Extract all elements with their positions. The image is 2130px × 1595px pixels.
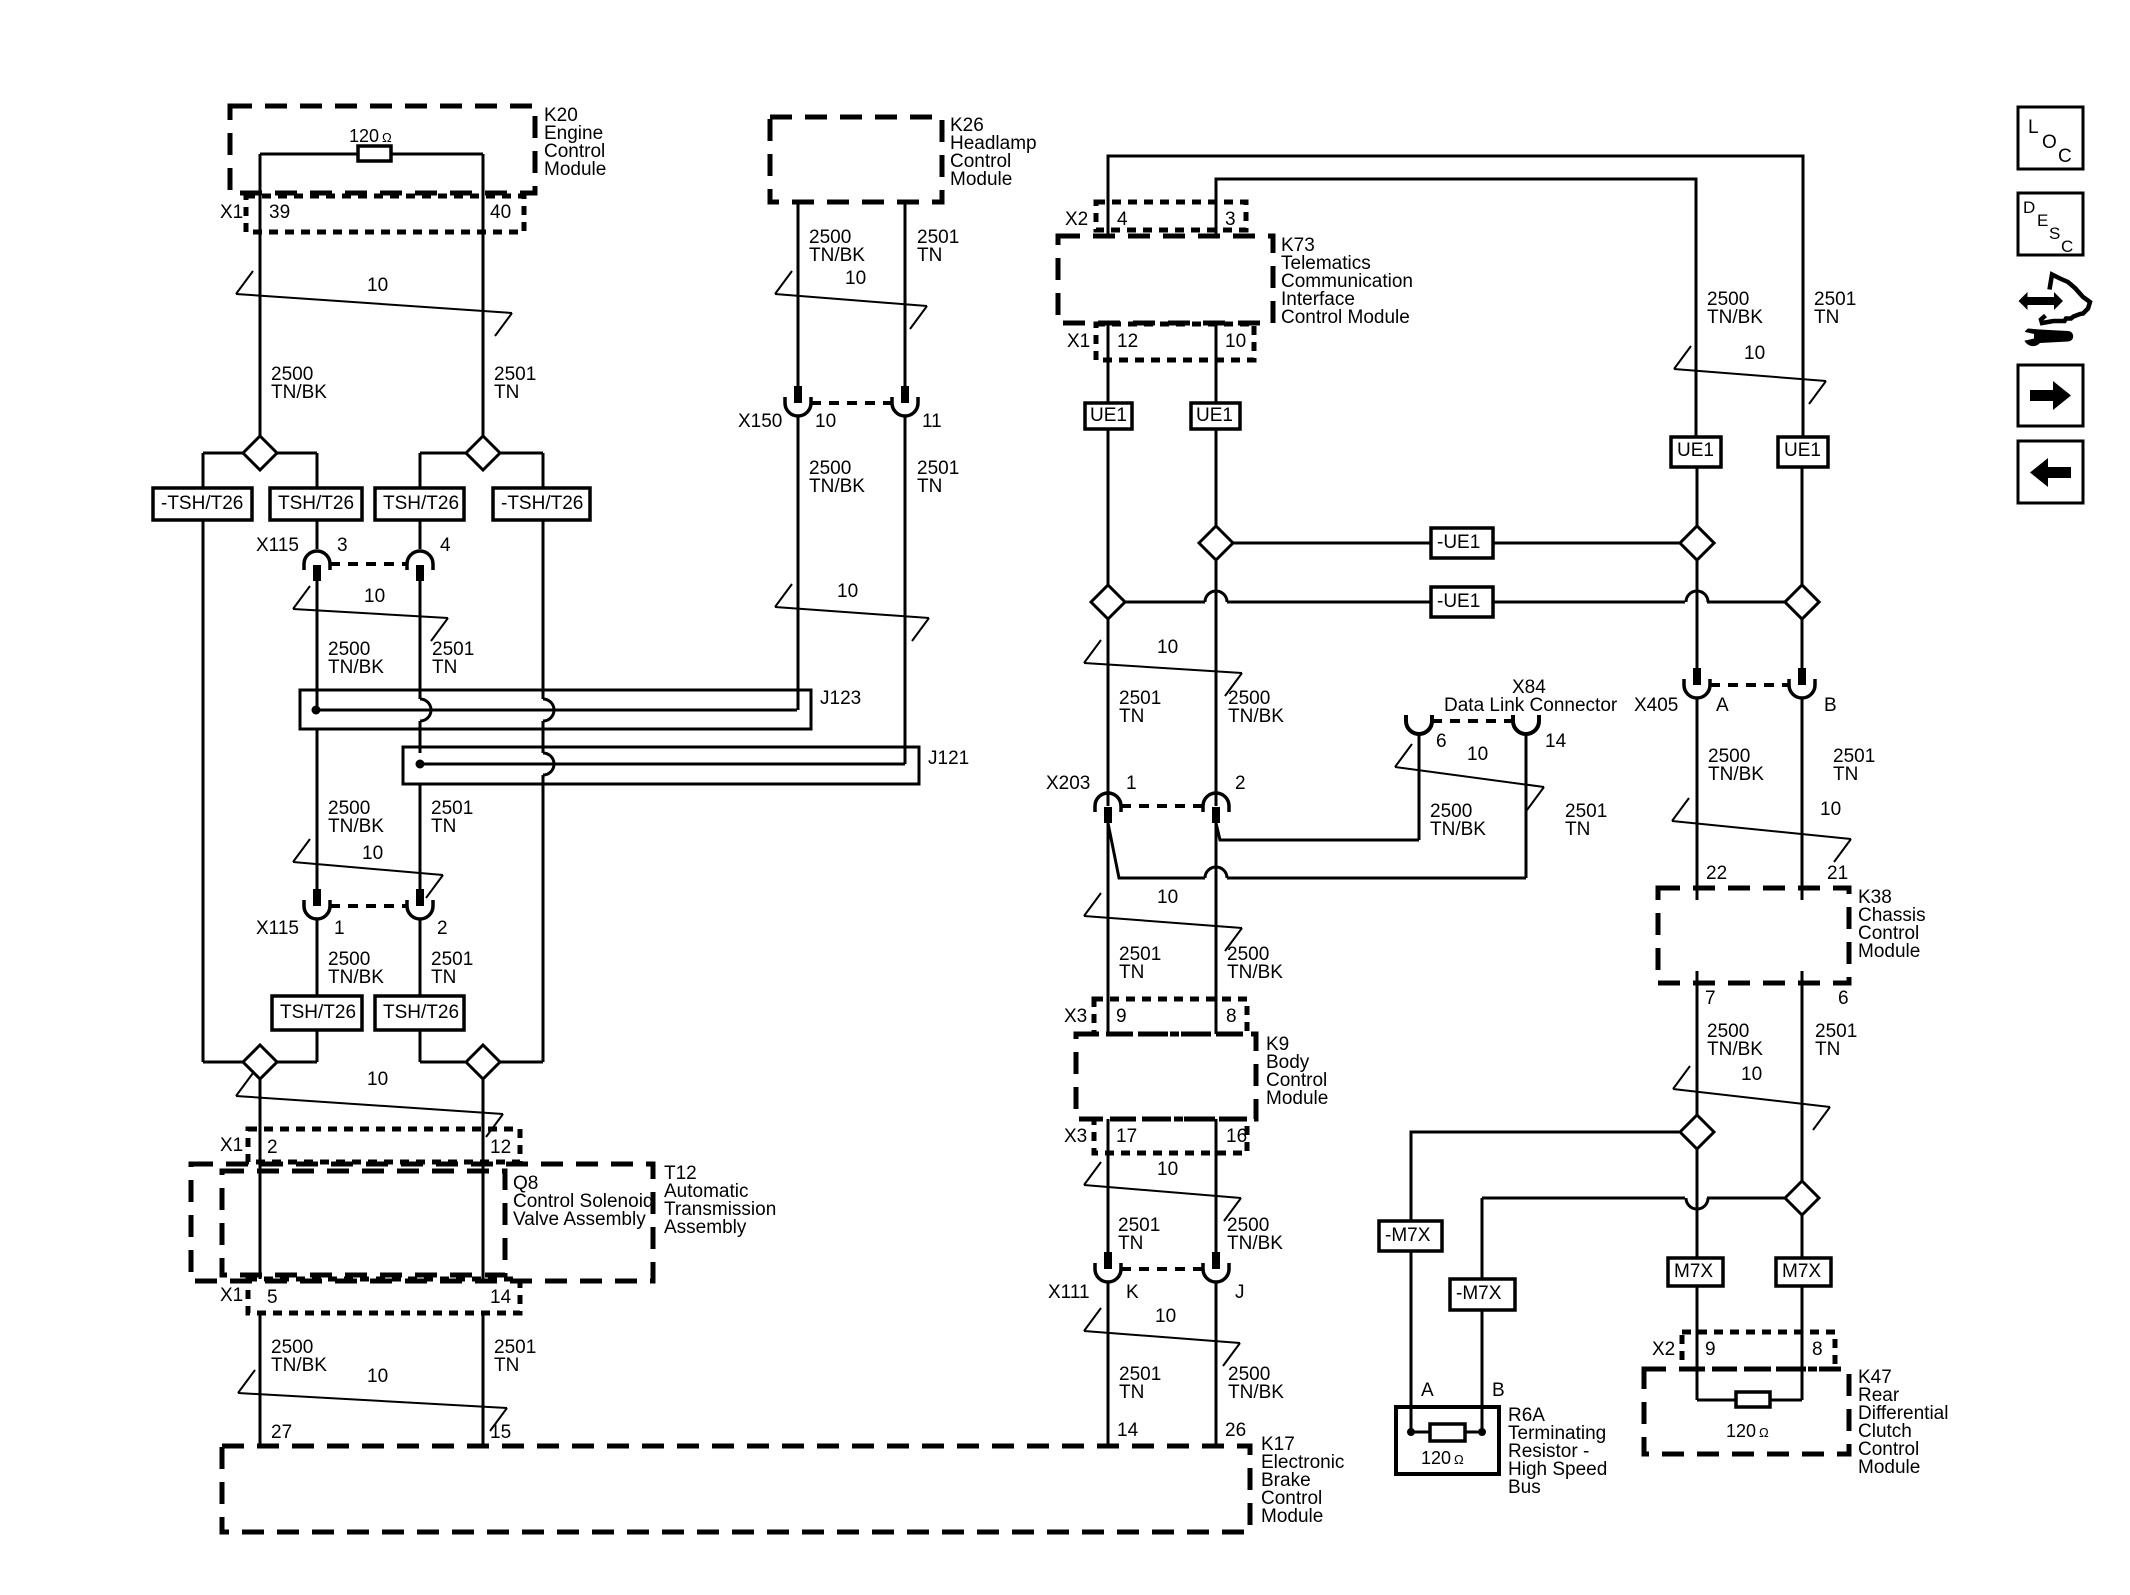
hop of R6A.B branch under 2500 wire (1686, 1198, 1708, 1209)
svg-text:TN: TN (432, 657, 457, 678)
wire splice to -M7X (R6A.B branch) (1482, 1198, 1785, 1279)
wire 2501 TN X115.4 down across J123 (419, 581, 422, 699)
wire 2500 TN/BK X115.3 to J123 junction (316, 581, 319, 710)
svg-text:7: 7 (1705, 988, 1716, 1009)
connector X2 of K73 (dotted box) (1096, 202, 1246, 230)
svg-text:10: 10 (1157, 637, 1178, 658)
svg-text:UE1: UE1 (1196, 405, 1233, 426)
wire splice to -M7X (R6A.A branch) (1411, 1132, 1679, 1221)
wire net link K73 X2.4 to right 2501 riser (1108, 156, 1803, 437)
svg-text:TN: TN (494, 382, 519, 403)
wire-size marker 10 (above K17) (238, 1393, 507, 1408)
wire 2500 TN/BK X203.2 down to K9 (1215, 823, 1218, 999)
wire through Q8 (left) (259, 1129, 262, 1279)
svg-text:Bus: Bus (1508, 1477, 1541, 1498)
svg-text:10: 10 (815, 411, 836, 432)
wire 2500 TN/BK X115.1 to TSH/T26 (316, 919, 319, 996)
wire K47 internal bus link (1697, 1399, 1802, 1402)
svg-text:21: 21 (1827, 863, 1848, 884)
connector X405 pin A (pin+socket) (1684, 668, 1710, 698)
takeout box -TSH/T26 (left outer) (153, 488, 252, 520)
svg-text:6: 6 (1838, 988, 1849, 1009)
svg-text:15: 15 (490, 1422, 511, 1443)
svg-text:TN/BK: TN/BK (271, 382, 327, 403)
wire -TSH/T26 drop to lower splice (left outer) (202, 520, 205, 1062)
component R6A Terminating Resistor (box) (1396, 1407, 1499, 1474)
takeout box UE1 (on 2501 riser) (1778, 437, 1828, 467)
wire 2501 TN from K26 (904, 202, 907, 386)
svg-text:TN: TN (1119, 1382, 1144, 1403)
svg-text:Module: Module (1858, 941, 1920, 962)
svg-text:TN/BK: TN/BK (1228, 1382, 1284, 1403)
splice diamond S1 on 2500 wire (203, 436, 317, 488)
svg-text:Control Module: Control Module (1281, 307, 1410, 328)
junction dot J123 on 2500 wire (312, 706, 321, 715)
svg-text:1: 1 (334, 918, 345, 939)
wire X111.J to K17 pin 26 (1215, 1282, 1218, 1446)
wire X84.6 down (1418, 734, 1421, 840)
connector X405 pin B (pin+socket) (1789, 668, 1815, 698)
icon vehicle diagnostic (arrows, outline, wrench) (2019, 275, 2091, 347)
svg-text:M7X: M7X (1782, 1261, 1821, 1282)
resistor R6A 120 ohm (1430, 1424, 1465, 1441)
wire through Q8 (right) (482, 1129, 485, 1279)
svg-text:TN: TN (1118, 1233, 1143, 1254)
svg-text:TN/BK: TN/BK (1227, 962, 1283, 983)
takeout box TSH/T26 (lower right) (375, 996, 464, 1030)
wire 2500 TN/BK J123 to X115 pin 1 (316, 729, 319, 889)
svg-text:5: 5 (267, 1287, 278, 1308)
takeout box -UE1 (row 1) (1431, 528, 1493, 558)
svg-text:TN: TN (494, 1355, 519, 1376)
svg-text:10: 10 (1157, 1159, 1178, 1180)
svg-text:M7X: M7X (1674, 1261, 1713, 1282)
wire X111.K to K17 pin 14 (1107, 1282, 1110, 1446)
svg-text:Module: Module (1261, 1506, 1323, 1527)
wire-size marker 10 (right top) (1674, 369, 1826, 381)
takeout box TSH/T26 (right inner) (375, 488, 464, 520)
svg-text:6: 6 (1436, 731, 1447, 752)
svg-text:14: 14 (490, 1287, 512, 1308)
svg-text:B: B (1492, 1380, 1505, 1401)
svg-text:10: 10 (1155, 1306, 1176, 1327)
connector X84 socket 6 (1406, 715, 1432, 734)
wire-size marker 10 (below K38) (1673, 1089, 1830, 1107)
svg-text:TSH/T26: TSH/T26 (383, 1002, 459, 1023)
wire 2501 TN from TSH/T26 to connector X115 pin 4 (419, 520, 422, 549)
svg-text:Module: Module (544, 159, 606, 180)
module K73 Telematics Communication Interface Control Module (dashed box) (1058, 236, 1273, 323)
connector X3 of K9 bottom (dotted box) (1094, 1119, 1247, 1153)
takeout box UE1 (on 2500 K73 drop) (1085, 403, 1132, 429)
svg-text:12: 12 (1117, 331, 1138, 352)
connector X150 pin 10 (pin+socket) (785, 386, 811, 416)
svg-text:TN/BK: TN/BK (1227, 1233, 1283, 1254)
splice diamond on 2500 (to R6A.A) (1680, 1115, 1714, 1149)
icon button LOC (2018, 107, 2083, 169)
svg-text:40: 40 (490, 202, 511, 223)
wire 2500 TN/BK splice S3 to X1 pin 2 (259, 1079, 262, 1129)
wire 2500 TN/BK from K20 pin 39 (259, 154, 262, 437)
takeout box -M7X (R6A.A) (1379, 1221, 1442, 1251)
svg-text:X111: X111 (1048, 1282, 1090, 1303)
wire UE1 drop left (1107, 429, 1110, 583)
connector X115 socket+pin 3 (304, 551, 330, 581)
connector X150 pin 11 (pin+socket) (892, 386, 918, 416)
value label 120 ohm (R6A) (1421, 1448, 1464, 1468)
svg-text:Module: Module (1858, 1457, 1920, 1478)
connector X1 of K20 (dotted box) (246, 196, 524, 232)
module K20 Engine Control Module (dashed box) (230, 106, 535, 193)
wire inside J121 (420, 763, 905, 766)
connector X405 dashed link (1710, 683, 1790, 687)
svg-text:D: D (2023, 198, 2035, 217)
svg-text:X2: X2 (1652, 1339, 1675, 1360)
wire X84.14 down (1525, 734, 1528, 878)
junction dot J121 on 2501 wire (416, 760, 425, 769)
hop of outer wire over J121 internal wire (543, 753, 554, 775)
svg-text:2: 2 (437, 918, 448, 939)
connector X2 of K47 (dotted box) (1682, 1332, 1835, 1369)
svg-text:TN: TN (1119, 962, 1144, 983)
module Q8 Control Solenoid Valve Assembly (inner dashed box) (222, 1171, 505, 1275)
wire X405.A to K38 pin 22 (1696, 698, 1699, 900)
takeout box -TSH/T26 (right outer) (493, 488, 590, 520)
connector X84 socket 14 (1513, 715, 1539, 734)
wire net link K73 X2.3 to right 2500 riser (1216, 179, 1696, 437)
svg-text:TN: TN (1833, 764, 1858, 785)
svg-text:14: 14 (1545, 731, 1567, 752)
value label 120 ohm (K20) (349, 126, 392, 146)
wire 2501 TN J121 to X115 pin 2 (419, 784, 422, 889)
svg-text:UE1: UE1 (1090, 405, 1127, 426)
connector X84 dashed link (1432, 719, 1513, 723)
splice diamond on 2501 drop (row 1 left) (1199, 526, 1233, 560)
svg-text:Data Link Connector: Data Link Connector (1444, 695, 1618, 716)
svg-text:TN: TN (917, 476, 942, 497)
resistor K20 internal 120 ohm (358, 146, 391, 161)
connector X111 pin K (pin+socket) (1095, 1252, 1121, 1282)
module K47 Rear Differential Clutch Control Module (dashed box) (1644, 1369, 1849, 1454)
svg-text:X1: X1 (220, 1135, 243, 1156)
svg-text:TN/BK: TN/BK (809, 476, 865, 497)
takeout box TSH/T26 (lower left) (272, 996, 362, 1030)
svg-text:10: 10 (1820, 799, 1841, 820)
svg-text:X203: X203 (1046, 773, 1090, 794)
svg-text:10: 10 (1467, 744, 1488, 765)
module K17 Electronic Brake Control Module (dashed box) (222, 1446, 1250, 1532)
svg-text:Ω: Ω (1454, 1452, 1464, 1467)
wire-size marker 10 (above T12) (236, 1096, 503, 1114)
takeout box -M7X (R6A.B) (1450, 1279, 1515, 1310)
assembly T12 Automatic Transmission (outer dashed box) (191, 1164, 653, 1281)
module K38 Chassis Control Module (dashed box) (1658, 888, 1849, 983)
svg-text:10: 10 (364, 586, 385, 607)
svg-text:12: 12 (490, 1137, 511, 1158)
svg-text:-M7X: -M7X (1385, 1225, 1431, 1246)
svg-text:TN: TN (1814, 307, 1839, 328)
svg-text:B: B (1824, 695, 1837, 716)
takeout box TSH/T26 (left inner) (270, 488, 362, 520)
svg-text:TN/BK: TN/BK (809, 245, 865, 266)
wire-size marker 10 (below X405) (1672, 821, 1851, 839)
wire M7X to K47 X2.8 (1801, 1286, 1804, 1400)
wire into K9 left (1107, 999, 1110, 1034)
svg-text:X3: X3 (1064, 1126, 1087, 1147)
wire 2501 TN X1.14 to K17 pin 15 (482, 1313, 485, 1446)
svg-text:X1: X1 (1067, 331, 1090, 352)
connector X203 socket+pin 2 (1203, 793, 1229, 823)
svg-text:-UE1: -UE1 (1437, 591, 1480, 612)
svg-text:-TSH/T26: -TSH/T26 (161, 493, 243, 514)
wire -UE1 row1 (1233, 542, 1431, 545)
svg-text:TN: TN (1565, 819, 1590, 840)
svg-text:L: L (2028, 117, 2039, 138)
svg-text:TN/BK: TN/BK (328, 816, 384, 837)
wire-size marker 10 (X84) (1395, 767, 1544, 787)
connector X3 of K9 top (dotted box) (1094, 999, 1247, 1034)
svg-text:2: 2 (1235, 773, 1246, 794)
icon button next (right arrow) (2018, 365, 2083, 426)
splice diamond on 2501 riser (row 2 right) (1785, 585, 1819, 619)
svg-text:C: C (2058, 146, 2072, 167)
svg-text:120: 120 (349, 126, 379, 146)
svg-text:14: 14 (1117, 1420, 1139, 1441)
svg-text:X1: X1 (220, 1285, 243, 1306)
wire X405.B to K38 pin 21 (1801, 698, 1804, 900)
svg-text:10: 10 (362, 843, 383, 864)
svg-text:TSH/T26: TSH/T26 (280, 1002, 356, 1023)
junction dot R6A pin B (1478, 1428, 1486, 1436)
svg-text:TN: TN (431, 967, 456, 988)
svg-text:J121: J121 (928, 748, 969, 769)
svg-text:Ω: Ω (1759, 1425, 1769, 1440)
connector X115 pin 2 (pin+socket) (407, 889, 433, 919)
svg-text:3: 3 (1225, 209, 1236, 230)
wire M7X to K47 X2.9 (1696, 1286, 1699, 1400)
connector X1 of K73 (dotted box) (1096, 324, 1254, 360)
wire TSH/T26 to splice S3 (316, 1030, 319, 1062)
takeout box -UE1 (row 2) (1431, 587, 1493, 617)
svg-text:E: E (2037, 211, 2048, 230)
connector X1 of Q8 (bottom dotted box) (248, 1279, 520, 1313)
svg-text:X150: X150 (738, 411, 782, 432)
connector X111 pin J (pin+socket) (1203, 1252, 1229, 1282)
svg-text:10: 10 (367, 275, 388, 296)
svg-text:10: 10 (367, 1366, 388, 1387)
svg-text:17: 17 (1116, 1126, 1137, 1147)
connector X115 pin 1 (pin+socket) (304, 889, 330, 919)
svg-text:J: J (1235, 1282, 1245, 1303)
wire K73 X1.10 to UE1 (1215, 324, 1218, 403)
svg-text:10: 10 (845, 268, 866, 289)
svg-text:TN: TN (1119, 706, 1144, 727)
svg-text:A: A (1421, 1380, 1434, 1401)
svg-text:10: 10 (1744, 343, 1765, 364)
splice diamond on 2501 riser (row 2 right, over wire) (1785, 585, 1819, 619)
svg-text:TN/BK: TN/BK (1708, 764, 1764, 785)
module K9 Body Control Module (dashed box) (1076, 1034, 1256, 1119)
takeout box M7X (2501) (1776, 1258, 1831, 1286)
svg-text:-UE1: -UE1 (1437, 532, 1480, 553)
svg-text:TN/BK: TN/BK (271, 1355, 327, 1376)
icon button back (left arrow) (2018, 441, 2083, 503)
wire UE1 drop right (1215, 429, 1218, 526)
wire inside J123 (316, 709, 797, 712)
svg-text:TN: TN (917, 245, 942, 266)
resistor K47 internal 120 ohm (1736, 1392, 1770, 1407)
wire 2500 splice down to M7X (1696, 971, 1699, 1258)
wire-size marker 10 (above J123, middle) (775, 607, 929, 618)
splice diamond on 2500 drop (row 2 left) (1091, 585, 1125, 619)
svg-text:9: 9 (1116, 1006, 1127, 1027)
splice diamond on 2501 (to R6A.B) (1785, 1181, 1819, 1215)
takeout box UE1 (on 2501 K73 drop) (1191, 403, 1240, 429)
wire X203.2 link to X84.6 (2500 TN/BK) (1216, 823, 1419, 840)
svg-text:26: 26 (1225, 1420, 1246, 1441)
wire R6A internal link (1411, 1431, 1482, 1434)
wire 2501 TN from K20 pin 40 (482, 154, 485, 437)
svg-text:120: 120 (1421, 1448, 1451, 1468)
wire 2500 TN/BK X150.10 down to J123 (797, 416, 800, 710)
wire-size marker 10 (below X111) (1084, 1331, 1240, 1343)
connector X203 dashed link (1121, 804, 1203, 808)
wire K9 X3.17 down (1107, 1119, 1110, 1252)
svg-text:TN: TN (1815, 1039, 1840, 1060)
svg-text:TSH/T26: TSH/T26 (278, 493, 354, 514)
connector X115 (pins 1,2) dashed link (330, 904, 407, 908)
wire 2501 TN X150.11 down to J121 (904, 416, 907, 764)
splice diamond S2 on 2501 wire (420, 436, 543, 488)
connector X115 socket+pin 4 (407, 551, 433, 581)
junction dot R6A pin A (1407, 1428, 1415, 1436)
connector X150 dashed link (811, 401, 892, 405)
svg-text:11: 11 (922, 411, 942, 432)
svg-text:TSH/T26: TSH/T26 (383, 493, 459, 514)
svg-text:TN/BK: TN/BK (1228, 706, 1284, 727)
icon button DESC (2018, 193, 2083, 256)
svg-text:TN/BK: TN/BK (328, 967, 384, 988)
svg-text:10: 10 (367, 1069, 388, 1090)
hop row2 over 2500 riser (1686, 591, 1708, 602)
wire-size marker 10 (above J123) (293, 609, 448, 618)
wire K38.7 down (2500 TN/BK) (1696, 971, 1699, 1000)
svg-text:Ω: Ω (382, 130, 392, 145)
splice pack J121 (box) (403, 747, 919, 784)
svg-text:9: 9 (1705, 1339, 1716, 1360)
svg-text:X405: X405 (1634, 695, 1678, 716)
wire K20 internal bus link (260, 153, 483, 156)
wire 2501 splice down to M7X (1801, 971, 1804, 1258)
svg-text:TN/BK: TN/BK (1707, 307, 1763, 328)
svg-text:27: 27 (271, 1422, 292, 1443)
svg-text:TN: TN (431, 816, 456, 837)
wire 2501 K73-branch down to X203 pin 2 (1215, 429, 1218, 806)
svg-text:J123: J123 (820, 688, 861, 709)
svg-text:TN/BK: TN/BK (1707, 1039, 1763, 1060)
wire K73 X1.12 to UE1 (1107, 324, 1110, 403)
svg-text:C: C (2061, 237, 2073, 256)
wire TSH/T26 to splice S4 (419, 1030, 422, 1062)
splice pack J123 (box) (300, 690, 811, 729)
hop row2 over 2501 drop (1205, 591, 1227, 602)
svg-text:10: 10 (1741, 1064, 1762, 1085)
svg-text:2: 2 (267, 1137, 278, 1158)
svg-text:X3: X3 (1064, 1006, 1087, 1027)
takeout box UE1 (on 2500 riser) (1671, 437, 1721, 467)
svg-text:S: S (2049, 224, 2060, 243)
svg-text:Module: Module (950, 169, 1012, 190)
wire-size marker 10 (below J121) (293, 862, 443, 875)
svg-text:3: 3 (337, 535, 348, 556)
connector X111 dashed link (1121, 1267, 1203, 1271)
takeout box M7X (2500) (1668, 1258, 1723, 1286)
wire-size marker 10 (below K20) (236, 294, 512, 313)
svg-text:10: 10 (1225, 331, 1246, 352)
wire 2500 TN/BK from TSH/T26 to connector X115 pin 3 (316, 520, 319, 549)
svg-text:8: 8 (1812, 1339, 1823, 1360)
wire 2500 K73-branch down to X203 pin 1 (1107, 429, 1110, 806)
wire 2500 riser UE1 to X405.A (1696, 467, 1699, 668)
wire -UE1 row2 (1125, 601, 1205, 604)
svg-text:-TSH/T26: -TSH/T26 (501, 493, 583, 514)
wire K38.6 down (2501 TN) (1801, 971, 1804, 1000)
wire 2501 TN splice S4 to X1 pin 12 (482, 1079, 485, 1129)
connector X203 socket+pin 1 (1095, 793, 1121, 823)
wire 2501 riser UE1 to X405.B (1801, 467, 1804, 668)
hop X203-X84 link over 2500 wire (1205, 867, 1227, 878)
svg-text:TN/BK: TN/BK (328, 657, 384, 678)
svg-text:16: 16 (1226, 1126, 1247, 1147)
svg-text:A: A (1716, 695, 1729, 716)
svg-text:22: 22 (1706, 863, 1727, 884)
svg-text:UE1: UE1 (1677, 440, 1714, 461)
connector X115 (pins 3,4) dashed link (330, 562, 407, 566)
svg-text:X115: X115 (256, 918, 299, 939)
wire K9 X3.16 down (1215, 1119, 1218, 1252)
svg-text:1: 1 (1126, 773, 1137, 794)
svg-text:10: 10 (837, 581, 858, 602)
wire 2500 TN/BK X1.5 to K17 pin 27 (259, 1313, 262, 1446)
hop of 2501 wire over J123 internal wire (420, 699, 431, 721)
svg-text:120: 120 (1726, 1421, 1756, 1441)
module K26 Headlamp Control Module (dashed box) (770, 117, 942, 202)
wire into K9 right (1215, 999, 1218, 1034)
splice diamond on 2500 riser (row 1 right) (1680, 526, 1714, 560)
wire-size marker 10 (above X203) (1084, 663, 1242, 673)
svg-text:39: 39 (269, 202, 290, 223)
svg-text:4: 4 (440, 535, 451, 556)
svg-text:UE1: UE1 (1784, 440, 1821, 461)
wire 2500 TN/BK from K26 (797, 202, 800, 386)
svg-text:Module: Module (1266, 1088, 1328, 1109)
svg-text:-M7X: -M7X (1456, 1283, 1502, 1304)
value label 120 ohm (K47) (1726, 1421, 1769, 1441)
wire 2501 TN X115.2 to TSH/T26 (419, 919, 422, 996)
wire 2501 TN X203.1 down to K9 (1107, 823, 1110, 999)
wire-size marker 10 (above K9) (1084, 916, 1242, 928)
splice diamond S4 (2501 rejoin) (466, 1045, 543, 1079)
svg-text:8: 8 (1226, 1006, 1237, 1027)
wire X203.1 link to X84.14 (2501 TN) (1108, 823, 1526, 878)
svg-text:X2: X2 (1065, 209, 1088, 230)
svg-text:TN/BK: TN/BK (1430, 819, 1486, 840)
connector X1 of Q8 (top dotted box) (248, 1129, 520, 1162)
svg-text:Assembly: Assembly (664, 1217, 747, 1238)
svg-text:10: 10 (1157, 887, 1178, 908)
wire -TSH/T26 drop through J-boxes (right outer) (542, 520, 545, 699)
wire -M7X to R6A pin A (1410, 1251, 1413, 1432)
